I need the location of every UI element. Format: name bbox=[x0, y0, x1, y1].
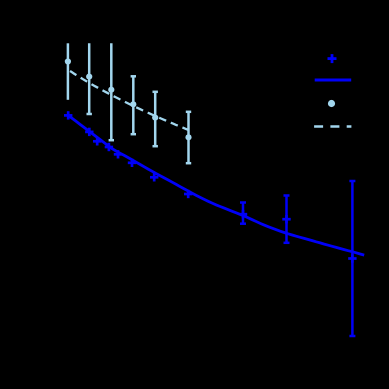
skyblue error bar 3 bbox=[109, 43, 114, 140]
skyblue error bar 1 bbox=[67, 43, 70, 100]
blue plus marker 3 bbox=[93, 137, 101, 145]
skyblue circle marker 2 bbox=[86, 74, 92, 80]
blue plus marker 9 bbox=[239, 210, 247, 218]
blue plus marker 1 bbox=[64, 111, 72, 119]
legend blue plus marker bbox=[328, 54, 337, 63]
skyblue circle marker 5 bbox=[152, 115, 158, 121]
skyblue circle marker 3 bbox=[108, 87, 114, 93]
blue error bar 2 bbox=[284, 196, 290, 243]
blue plus marker 7 bbox=[150, 173, 158, 181]
blue plus marker 4 bbox=[105, 143, 113, 151]
blue plus marker 5 bbox=[114, 150, 122, 158]
blue error bar 3 bbox=[349, 181, 355, 336]
skyblue circle marker 4 bbox=[130, 101, 136, 107]
skyblue circle marker 6 bbox=[185, 134, 191, 140]
legend skyblue circle marker bbox=[328, 100, 335, 107]
blue error bar 1 bbox=[240, 203, 246, 224]
blue plus marker 10 bbox=[282, 215, 290, 223]
skyblue circle marker 1 bbox=[65, 58, 71, 64]
skyblue error bar 5 bbox=[153, 92, 158, 146]
skyblue error bar 4 bbox=[131, 76, 136, 134]
blue solid fit line bbox=[68, 115, 364, 255]
legend skyblue dashed line bbox=[314, 125, 351, 127]
blue plus marker 2 bbox=[85, 128, 93, 136]
skyblue dashed fit line bbox=[68, 70, 188, 130]
blue plus marker 11 bbox=[348, 254, 356, 262]
skyblue error bar 6 bbox=[186, 112, 191, 163]
blue plus marker 6 bbox=[128, 159, 136, 167]
legend blue solid line bbox=[315, 79, 352, 82]
skyblue error bar 2 bbox=[87, 43, 92, 114]
blue plus marker 8 bbox=[184, 190, 192, 198]
